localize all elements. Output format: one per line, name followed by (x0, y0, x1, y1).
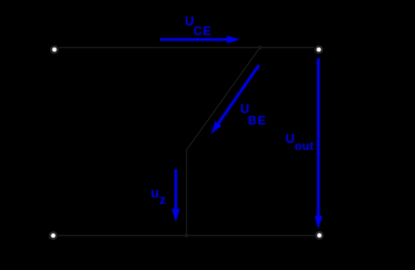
node junction top (258, 46, 262, 50)
node junction bottom (185, 234, 189, 238)
wire vertical branch (186, 150, 188, 236)
svg-text:u: u (151, 186, 159, 201)
label U_BE (240, 102, 266, 128)
label U_out (286, 132, 314, 153)
svg-text:out: out (295, 139, 314, 153)
voltage arrow U_out (315, 58, 323, 229)
label U_CE (185, 14, 212, 38)
voltage arrow u_z (172, 169, 180, 222)
wire base diagonal (187, 48, 261, 151)
svg-text:U: U (286, 132, 295, 146)
wire top (collector-emitter path) (59, 47, 314, 49)
svg-text:BE: BE (248, 114, 266, 128)
terminal top-right (315, 46, 323, 54)
wire bottom (58, 235, 315, 237)
terminal bottom-left (49, 232, 57, 240)
svg-text:CE: CE (194, 24, 212, 38)
terminal bottom-right (316, 232, 324, 240)
svg-text:z: z (159, 192, 166, 207)
label u_z (151, 186, 167, 207)
terminal top-left (51, 46, 59, 54)
voltage arrow U_CE (160, 36, 240, 44)
voltage arrow U_BE (211, 65, 259, 134)
